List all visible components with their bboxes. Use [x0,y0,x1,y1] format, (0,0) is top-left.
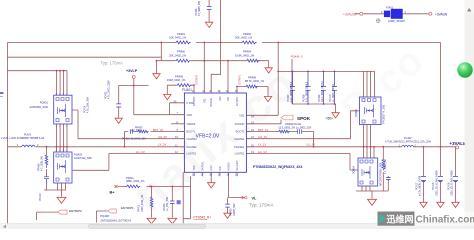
wire pin24 riser x=278.2 [277,42,279,115]
ground PR406 [164,95,171,100]
wire pin23 row to SPOK flag [246,120,281,124]
wire cap bank gnd stem [335,104,337,113]
svg-text:BOOT1: BOOT1 [236,130,245,134]
capacitor PC409 [321,71,326,104]
resistor PR401 10K_0402_1% (series in top rail) [175,41,191,44]
wire PR406 gnd stem [166,85,168,94]
node B+ [110,185,118,195]
wire PC403 column x=172.3 [171,186,173,217]
svg-text:1548_0402_1%: 1548_0402_1% [167,78,186,82]
svg-text:PC412 10_0402_25V: PC412 10_0402_25V [122,138,146,141]
svg-text:4.7_1608_5%: 4.7_1608_5% [41,155,44,171]
svg-text:SPOK: SPOK [297,116,311,121]
wire output cap column PC417 x=423.5 [423,147,425,202]
label PR412 vertical [138,194,144,212]
resistor PR408 88.7K_0402_1% [245,85,257,88]
wire PR400-PR404 row y=60.7 long [191,60,246,62]
wire top cap column x=209.1 [208,0,210,22]
wire UGATE2 row pin10 to PQ401 gate [72,110,184,139]
label PC406 vertical top [195,0,201,16]
resistor PR402 30K_0402_1% (series in top rail) [241,41,257,44]
ground PC405 [224,213,231,218]
resistor PR407 2.2 (BOOT2 series) [137,130,148,133]
svg-text:PL401: PL401 [24,133,32,136]
svg-text:100K_0402_1%: 100K_0402_1% [141,194,144,212]
flag ENTRIP2 [58,209,83,214]
capacitor PC412 (BOOT2 series cap) [131,129,133,134]
flag SPOK [281,115,333,121]
op IC PU401 body [184,93,246,172]
wire PQ404 source to ground [356,186,372,199]
svg-text:1000P_50V: 1000P_50V [233,203,236,216]
wire main top rail y=42.4 (left segment to PR401) [8,41,176,43]
scrollbar right [465,0,474,229]
junction PR405 tap [46,146,48,148]
wire GND pin16 stub [210,172,212,182]
capacitor PC411 (BOOT1 series cap) [297,129,301,134]
svg-text:LGATE1: LGATE1 [235,152,245,156]
junction +3VLP rail [133,85,135,87]
svg-text:LX_1V: LX_1V [307,143,316,147]
ground PR412 [147,218,156,224]
wire pin22 BOOT1 row [246,132,313,147]
capacitor PC414 (+3VLP decoupling) [116,104,121,107]
svg-text:PR402: PR402 [243,32,251,36]
ground PC415 [437,202,444,207]
svg-text:JUMP_4X3118: JUMP_4X3118 [388,20,405,23]
ground IC GND pin [208,183,215,188]
wire PQ403 source to ground [44,183,66,197]
wire cap bus bottom y=104 [292,103,336,105]
svg-text:BOOT2: BOOT2 [187,130,196,134]
svg-text:30K_0402_1%: 30K_0402_1% [235,36,253,40]
svg-text:VREG5: VREG5 [227,162,230,171]
svg-text:486K_0402_1%: 486K_0402_1% [126,179,145,183]
svg-text:LGATE2: LGATE2 [187,152,197,156]
wire +3VLP stem and rail [119,78,149,114]
svg-text:PR408: PR408 [248,75,256,79]
svg-text:LX_2V: LX_2V [158,142,167,146]
ground PC403 [168,218,177,224]
svg-text:FB2: FB2 [203,98,206,103]
capacitor PC408 [306,71,311,104]
label PR407 PC412 [122,127,146,141]
label PC405 vertical [230,203,236,216]
wire main top rail (right of PR402 to right border corner) [262,41,440,43]
resistor PR414 vertical (PQ404 gate) [382,159,385,171]
junction BOOT1 cap tap node LX_1V [313,146,315,148]
capacitor PC406 top decoupling [207,6,212,9]
ground PR404 [265,68,272,73]
junction FB row taps [193,84,195,86]
svg-text:REF: REF [219,96,222,101]
svg-text:22uF_0805_25V7R: 22uF_0805_25V7R [321,81,324,102]
label PQ403 [74,152,92,160]
ground PC416 [452,202,459,207]
svg-text:4.7UH_SMP3012_4R7M-Z011_10A_20: 4.7UH_SMP3012_4R7M-Z011_10A_20% [385,141,432,144]
capacitor PC413 (PQ404 gate) [386,178,391,182]
svg-text:4.7u_0805_25V6.3: 4.7u_0805_25V6.3 [305,81,308,102]
label PTN545_R link [194,216,212,220]
wire PQ401 source columns down to phase rail and PQ403 drain [57,124,67,152]
svg-text:VDD: VDD [187,113,193,117]
svg-text:PQ402: PQ402 [355,109,358,117]
resistor PR400 20K_0402_1% [175,59,191,62]
svg-text:UGATE1: UGATE1 [234,137,245,141]
svg-text:LX_1V: LX_1V [258,142,267,146]
ground +3VLP cap [115,118,122,123]
wire P PAD stub [170,103,185,115]
wire left border vertical x=7.5 [7,42,9,229]
wire PQ401 drain columns [57,71,67,96]
transistor PQ404 (low-side right) [358,158,378,186]
svg-text:2.2_0402: 2.2_0402 [131,129,142,132]
svg-text:Chinafix.com: Chinafix.com [416,214,474,225]
wire ENTRIP1 flag lead [96,211,107,223]
jumper PJ401 top right [360,9,432,23]
node VL terminal [242,196,257,200]
ground cap bank [332,113,339,118]
IC pin numbers [174,89,255,177]
green ball messenger icon [457,62,472,77]
wire PC405 cap column [227,198,229,213]
label PR402 [235,32,253,39]
resistor PR406 1548_0402_1% [176,84,192,87]
power +3VALW terminal [450,141,468,149]
wire +3VLP cap column x=118.7 [118,86,120,119]
wire right FET source columns to phase rail and PQ404 drain [364,125,375,158]
power +3VLP [126,69,138,79]
inductor PL402 [402,145,414,147]
label PR406 [167,75,186,82]
svg-text:BST_2V: BST_2V [153,128,164,132]
svg-text:100U_B2_6.3V8_R40W: 100U_B2_6.3V8_R40W [451,170,454,196]
svg-text:AON6466_SOD: AON6466_SOD [30,105,49,109]
svg-text:VO1: VO1 [239,114,245,118]
svg-text:88.7K_0402_1%: 88.7K_0402_1% [245,79,265,83]
IC left pin names [187,101,198,156]
svg-text:ENTRIP1: ENTRIP1 [239,74,242,85]
label PR409 PC411 [278,123,311,130]
wire PQ404 gate resistor column x=383.3 [372,147,388,191]
wire output cap column PC416 x=455.5 [455,147,457,202]
capacitor PC410B [332,71,337,104]
svg-text:TON: TON [193,165,196,170]
svg-text:Typ: 175mA: Typ: 175mA [101,60,124,65]
svg-text:迅维网: 迅维网 [387,214,414,225]
wire ENTRIP2 flag lead [37,212,58,220]
red vertical net labels above IC [196,74,242,85]
svg-text:Typ: 175mA: Typ: 175mA [249,203,274,208]
wire pin20 PHASE1 / right phase rail [246,146,456,148]
wire left FET drain feed y=70.7 [8,70,68,72]
svg-text:+3VLP: +3VLP [126,69,138,73]
svg-text:PR401: PR401 [177,32,185,36]
label PR400 [169,49,187,57]
svg-text:VFB=2.0V: VFB=2.0V [196,134,220,140]
svg-text:LG_2V: LG_2V [136,150,145,154]
label PL401 [1,133,44,140]
wire PQ403 gate resistor column x=46.5 [46,147,48,190]
wire PR404 right to gnd [257,61,269,68]
wire PR406 row y=85.2 [167,84,194,86]
wire pin21 UGATE1 row to right FET gate [246,111,359,139]
flag ENTRIP1 [108,206,134,213]
wire VDD row pin7 [134,114,185,116]
svg-text:2N7002DWH_SOT363-6: 2N7002DWH_SOT363-6 [100,219,131,223]
svg-text:BST_1V: BST_1V [258,128,269,132]
wire cap bus top y=71.4 [278,70,374,72]
svg-text:VREG3: VREG3 [187,122,196,126]
resistor PR409 13.3 (BOOT1 series) [278,130,289,133]
watermark diagonal text [123,37,433,222]
labels output caps vertical [415,170,453,196]
transistor PQ402 (high-side right) [360,97,382,125]
label PL402 [385,137,432,143]
svg-text:4.7u_25V_X5R: 4.7u_25V_X5R [87,97,90,113]
wire pin24 row [246,114,278,116]
wire left col riser x=161.3 [160,42,162,60]
capacitor PC416 output [453,176,458,181]
junction B+ sense taps [151,186,153,188]
svg-text:<50>: <50> [326,116,334,120]
wire IC top pin2 riser [203,42,205,93]
label PC403 vertical [163,197,169,211]
svg-text:PC410: PC410 [39,193,42,201]
wire PR408 row y=86.5 [237,87,268,97]
svg-text:MTD2POTNRH_S08: MTD2POTNRH_S08 [380,162,383,186]
svg-text:VL: VL [252,196,258,200]
svg-text:PTN545_R+: PTN545_R+ [194,216,212,220]
svg-text:VCLAMP: VCLAMP [236,160,239,170]
svg-text:PR404: PR404 [243,49,251,53]
wire pin19 LGATE1 row to right lower FET gate [246,153,358,170]
junction PQ401 drain feed [56,70,58,72]
wire right border vertical x=440.4 down to rail [439,42,441,146]
capacitor PC410 (PQ403 gate) [44,176,49,185]
svg-text:B+: B+ [110,191,116,195]
wire IC top pin5 riser [227,61,229,93]
svg-text:FB1: FB1 [227,96,230,101]
wire PQ404 gate cap column x=388.3 [387,176,389,191]
watermark chinafix bar [378,212,474,226]
label PR411 [126,176,145,183]
svg-text:20K_0402_1%: 20K_0402_1% [169,54,187,58]
svg-text:ENTRP1: ENTRP1 [236,96,239,106]
svg-text:10K_0402_1%: 10K_0402_1% [169,36,187,40]
red net labels near IC [136,55,315,154]
transistor PQ401 (high-side left) [54,95,72,124]
svg-text:16.8K_0402_1%: 16.8K_0402_1% [235,54,255,58]
svg-text:ENTRIP2: ENTRIP2 [196,74,199,85]
svg-text:PQ404: PQ404 [352,166,355,174]
svg-text:UG_2V: UG_2V [158,135,167,139]
svg-text:ENTRIP2: ENTRIP2 [69,209,82,213]
svg-text:4.7u_SMD_100M: 4.7u_SMD_100M [108,80,111,99]
svg-text:ENTRIP1: ENTRIP1 [121,206,134,210]
svg-text:PR409 PC411: PR409 PC411 [285,123,301,126]
wire main top rail (between PR401 and PR402) [196,41,241,43]
wire IC top pin3 riser with jog [211,0,220,93]
resistor PR405 vertical (PQ403 gate) [45,154,48,168]
IC bottom pin names vertical [193,160,239,170]
svg-text:Y2_0805_25V: Y2_0805_25V [198,0,201,16]
svg-text:1u_25V_X5R: 1u_25V_X5R [166,197,169,211]
svg-text:4.7u_0805_25V6.3: 4.7u_0805_25V6.3 [290,81,293,102]
wire PR400 row y=60.7 left [157,60,176,62]
junction top rail taps [160,42,162,44]
svg-text:UG_1V: UG_1V [258,135,267,139]
svg-text:PJ401: PJ401 [386,7,394,10]
ground PQ403 source [57,197,66,203]
junction PR414 tap [382,146,384,148]
svg-text:PHASE1: PHASE1 [234,145,245,149]
svg-text:LG_1V: LG_1V [258,150,267,154]
svg-text:4.7_1608_5%: 4.7_1608_5% [384,158,387,174]
ground top cap PC406 [205,22,213,27]
scrollbar bottom [0,224,474,230]
svg-text:+3VALW: +3VALW [435,12,447,16]
IC pin stubs [180,90,250,176]
wire jumper row y=13.8 [355,13,429,15]
svg-text:PQ404_S: PQ404_S [291,55,303,59]
wire right FET drain columns from bus [364,71,375,97]
wire BOOT2 row pin9 [125,132,185,147]
svg-text:ENTRP2: ENTRP2 [193,96,196,106]
PQ401 pin numbers tiny [56,94,69,153]
IC top pin names vertical [193,96,239,107]
wire IC top pin1 riser [193,85,195,93]
IC right pin names [234,114,245,156]
svg-text:13.3_0603_1% 1u_0603_25V: 13.3_0603_1% 1u_0603_25V [278,127,311,130]
junction divider row taps [156,60,158,62]
inductor PL401 [22,145,36,147]
capacitor PC417 output [421,176,426,181]
svg-text:2.2UH +-20% PCMB0807 5R5M5 6.2: 2.2UH +-20% PCMB0807 5R5M5 6.2A [1,137,44,140]
capacitor PC403 (B+ sense) [170,200,181,204]
svg-text:PR400: PR400 [177,49,185,53]
label PC414 vertical [84,80,111,113]
junction left phase rail node LX_2V [56,146,58,148]
wire right feed drop to cap bus [291,59,293,104]
label PR408 [245,75,265,82]
svg-text:TPC8037-H_S08: TPC8037-H_S08 [382,104,385,124]
label PQ408 [100,214,131,223]
svg-text:100U_B2_6.3V8_R40W: 100U_B2_6.3V8_R40W [436,170,439,196]
wire VL pin14 [228,172,244,197]
label PR404 [235,49,255,57]
resistor PR411 486K (B+ series) [126,185,140,188]
wire PR400 gnd stem [156,61,158,74]
capacitor PC415 output [438,176,443,181]
svg-text:1u_0603_25V7R: 1u_0603_25V7R [332,84,335,102]
wire IC bottom pin drops x=183.2 and x=190.5 [183,172,190,223]
wire IC top pin6 riser [236,87,238,94]
label PQ401 [30,101,49,109]
wire LGATE2 row pin12 to PQ403 gate [73,153,185,170]
svg-text:●4.7u_0805_Y5R8: ●4.7u_0805_Y5R8 [419,175,422,196]
ground PC417 [420,202,427,207]
svg-text:PQ403: PQ403 [74,152,83,156]
ground PR408 [264,97,271,102]
label jumper PJ401 texts [381,7,407,23]
svg-text:PR406: PR406 [175,75,183,79]
junction right phase rail node LX_1V [363,146,365,148]
wire PR412 column x=151.6 [151,186,153,217]
ground PQ404 source [368,199,377,205]
capacitor PC405 (VL) [225,204,230,207]
wire output cap column PC415 x=440.4 [439,147,441,202]
transistor PQ403 (low-side left) [54,152,72,183]
svg-text:UGATE2: UGATE2 [187,137,198,141]
wire B+ row y=184.4 [118,185,191,187]
svg-text:SKPSEL: SKPSEL [202,161,205,171]
resistor PR412 100K vertical [150,197,153,208]
resistor PR404 16.8K_0402_1% [246,59,259,62]
svg-text:PGDSEL: PGDSEL [210,97,213,107]
svg-text:PQ401: PQ401 [40,101,49,105]
wire left phase rail y=146.8 [8,146,185,148]
left edge connector fragment [0,93,4,97]
inductor pin numbers [17,144,417,147]
junction PC412 tap [124,146,126,148]
svg-text:PTN545ZDK22_WQFN3X3_4X4: PTN545ZDK22_WQFN3X3_4X4 [253,165,302,169]
svg-text:PQ408: PQ408 [100,214,109,218]
svg-text:PGOOD: PGOOD [235,122,245,126]
svg-text:GND: GND [210,165,213,171]
wire left feed y=57.2 [8,56,162,58]
svg-text:PU401: PU401 [182,88,192,92]
junction output cap taps node +3VALW [423,146,425,148]
svg-text:AON7412_S08: AON7412_S08 [74,156,92,160]
label PR405 PC410 vertical [38,155,44,201]
junction cap bus top taps [277,71,279,73]
junction cap bus bottom taps [307,103,309,105]
svg-text:+3VALWP: +3VALWP [343,12,357,16]
ground PR400 [153,74,160,79]
label PR401 [169,32,187,39]
capacitor PC407 [290,71,295,104]
wire VREG3 stub pin8 [171,123,184,125]
svg-text:PHASE2: PHASE2 [187,145,198,149]
svg-text:VIN: VIN [219,166,222,170]
labels cap bank vertical PC407-PC410 [287,81,335,102]
